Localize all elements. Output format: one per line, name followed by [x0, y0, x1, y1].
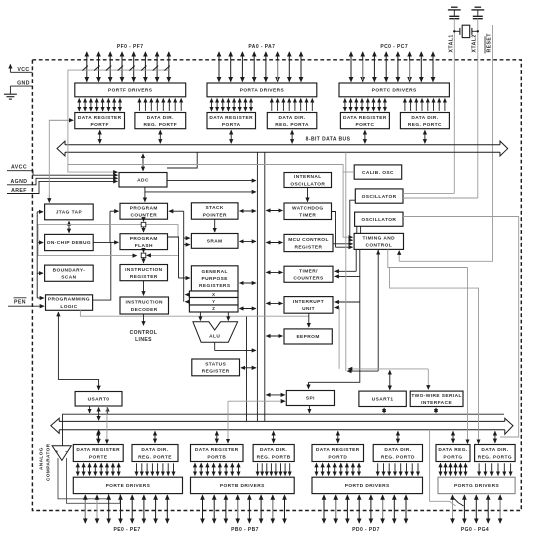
svg-text:PORTE DRIVERS: PORTE DRIVERS	[106, 483, 151, 489]
wire interrupt to serial units	[335, 307, 339, 309]
PROGRAM FLASH	[120, 234, 168, 250]
wire XTAL1 to oscillator	[403, 192, 454, 194]
XTAL2 capacitor+ground	[475, 6, 482, 8]
PORTE register-driver arrows	[78, 463, 174, 475]
wire ADC upper-right to bus	[167, 152, 197, 168]
svg-text:LOGIC: LOGIC	[60, 304, 77, 310]
analog comparator	[52, 446, 71, 461]
svg-text:OSCILLATOR: OSCILLATOR	[290, 181, 325, 187]
STATUS REGISTER	[192, 359, 240, 376]
ADC analog input taps on PORTF pins	[68, 66, 170, 71]
svg-text:VCC: VCC	[17, 67, 29, 73]
programming serial link	[246, 316, 248, 421]
data dir. register PORTF	[135, 113, 186, 129]
svg-text:PORTB DRIVERS: PORTB DRIVERS	[220, 483, 265, 489]
wire SP to SRAM	[214, 219, 216, 232]
wire Z to bus	[240, 308, 256, 310]
BOUNDARY-SCAN	[45, 265, 94, 281]
wire around OCD (flash address)	[38, 225, 142, 256]
PORTB register-bus arrows	[217, 431, 274, 442]
svg-text:SCAN: SCAN	[61, 275, 76, 281]
svg-text:ON-CHIP DEBUG: ON-CHIP DEBUG	[47, 240, 91, 246]
wire gray long vertical	[345, 152, 347, 371]
USART1 top arrow	[389, 371, 391, 390]
svg-text:TIMER/: TIMER/	[299, 268, 318, 274]
PB pin lines	[203, 495, 285, 523]
node PC-flash	[143, 219, 145, 221]
svg-text:PORTA DRIVERS: PORTA DRIVERS	[240, 88, 285, 94]
svg-text:PORTD: PORTD	[328, 454, 347, 460]
register X	[189, 291, 238, 298]
svg-text:REGISTER: REGISTER	[130, 274, 158, 280]
svg-text:COUNTER: COUNTER	[130, 213, 157, 219]
data dir. register PORTA	[267, 113, 317, 129]
PA0-PA7 pin lines	[219, 52, 301, 82]
GENERAL PURPOSE REGISTERS	[191, 266, 238, 291]
comparator input wires	[58, 458, 108, 499]
PROGRAM COUNTER	[120, 203, 168, 219]
svg-text:PORTC: PORTC	[355, 122, 374, 128]
ground symbol	[4, 93, 17, 95]
wire GPR to ALU	[199, 312, 201, 320]
svg-text:REGISTER: REGISTER	[295, 244, 323, 250]
wire ADC column to timing and control	[68, 165, 353, 238]
SPI	[286, 391, 334, 406]
PC0-PC7 pin lines	[351, 52, 433, 82]
INTERRUPT UNIT	[284, 297, 333, 314]
data dir. register PORTE	[132, 445, 178, 462]
svg-text:DATA DIR.: DATA DIR.	[141, 447, 168, 453]
svg-text:REGISTER: REGISTER	[202, 369, 230, 375]
8-bit data bus (bottom)	[59, 421, 505, 429]
STACK POINTER	[191, 203, 238, 219]
wire clock to SPI	[308, 382, 310, 388]
GND pin	[10, 85, 32, 87]
wire int osc to watchdog	[307, 188, 309, 202]
data dir. register PORTC	[400, 113, 449, 129]
wire OCD rail down	[93, 242, 111, 300]
svg-text:PORTE: PORTE	[89, 454, 108, 460]
svg-text:PORTB: PORTB	[207, 454, 226, 460]
USART1	[359, 391, 406, 406]
wire T&C to timer/counters	[355, 249, 357, 271]
svg-text:PD0 - PD7: PD0 - PD7	[352, 527, 380, 533]
svg-text:PORTD DRIVERS: PORTD DRIVERS	[345, 483, 390, 489]
svg-text:DATA REGISTER: DATA REGISTER	[343, 115, 387, 121]
svg-text:OSCILLATOR: OSCILLATOR	[361, 217, 396, 223]
svg-text:DATA REGISTER: DATA REGISTER	[78, 115, 122, 121]
wire calib osc stub	[343, 171, 354, 173]
CALIB. OSC	[354, 165, 402, 179]
PD pin lines	[324, 495, 406, 523]
svg-text:JTAG TAP: JTAG TAP	[56, 210, 83, 216]
PORTB register-driver arrows	[195, 463, 290, 475]
ADC	[119, 173, 167, 188]
svg-text:COMPARATOR: COMPARATOR	[46, 443, 51, 481]
wire PORTF register to JTAG	[49, 120, 73, 200]
svg-text:COUNTERS: COUNTERS	[293, 276, 324, 282]
TWO-WIRE SERIAL INTERFACE	[410, 391, 463, 406]
INSTRUCTION DECODER	[120, 297, 169, 314]
TIMER/COUNTERS	[284, 266, 333, 282]
svg-text:UNIT: UNIT	[302, 306, 315, 312]
SPI-bus arrow left	[266, 394, 284, 396]
svg-text:SPI: SPI	[306, 396, 315, 402]
control lines arrow	[143, 314, 145, 325]
svg-text:PF0 - PF7: PF0 - PF7	[117, 44, 144, 50]
PORTG register-driver arrows	[441, 463, 511, 475]
svg-text:TIMER: TIMER	[299, 213, 316, 219]
data register PORTB	[191, 445, 244, 462]
svg-text:CALIB. OSC: CALIB. OSC	[362, 170, 394, 176]
PORTB drivers	[191, 477, 295, 493]
svg-text:INSTRUCTION: INSTRUCTION	[125, 300, 163, 306]
wire bus to ADC	[142, 154, 144, 171]
svg-text:REG. PORTD: REG. PORTD	[381, 454, 415, 460]
wire OCD to program counter/flash	[93, 241, 110, 243]
svg-text:CONTROL: CONTROL	[365, 243, 392, 249]
wire T&C down-left	[377, 249, 379, 371]
wire ADC to bus right	[167, 180, 256, 182]
wire MCU ctrl to T&C	[333, 243, 352, 245]
register Z	[189, 305, 238, 312]
svg-text:INTERFACE: INTERFACE	[421, 400, 452, 406]
svg-text:PC0 - PC7: PC0 - PC7	[380, 44, 408, 50]
svg-text:REG. PORTB: REG. PORTB	[257, 454, 291, 460]
wire PORTF analog to ADC	[68, 70, 117, 172]
wire T&C gray down	[388, 249, 468, 267]
svg-text:REGISTERS: REGISTERS	[199, 283, 231, 289]
svg-text:DATA REGISTER: DATA REGISTER	[76, 447, 120, 453]
svg-text:DECODER: DECODER	[131, 307, 158, 313]
svg-text:X: X	[212, 292, 215, 297]
PORTC drivers	[339, 83, 449, 97]
wire programming logic to EEPROM	[80, 310, 308, 316]
PORTG gray wire	[430, 430, 456, 506]
svg-text:PORTA: PORTA	[222, 122, 241, 128]
svg-text:DATA REGISTER: DATA REGISTER	[316, 447, 360, 453]
ALU	[193, 322, 238, 342]
8-bit data bus (top)	[65, 145, 500, 153]
svg-text:PORTF DRIVERS: PORTF DRIVERS	[108, 88, 153, 94]
wire around flash right	[145, 225, 179, 237]
register Y	[189, 298, 238, 306]
PORTF register-bus arrows	[100, 130, 161, 143]
PORTC register-bus arrows	[365, 130, 425, 143]
PORTG crossover	[453, 497, 464, 506]
XTAL2 net	[477, 18, 479, 198]
svg-text:DATA REGISTER: DATA REGISTER	[209, 115, 253, 121]
ON-CHIP DEBUG	[45, 234, 94, 250]
wire ADC to program counter / bus	[145, 187, 256, 192]
svg-text:Y: Y	[212, 299, 215, 304]
PORTD drivers	[312, 477, 423, 493]
svg-text:PROGRAM: PROGRAM	[130, 205, 158, 211]
chip boundary (dashed)	[32, 60, 521, 511]
wire programming logic to USART0	[57, 312, 59, 379]
TWI bottom arrow	[435, 408, 437, 413]
svg-text:POINTER: POINTER	[203, 212, 227, 218]
vertical bus link 2	[264, 152, 266, 421]
svg-text:TIMING AND: TIMING AND	[363, 236, 396, 242]
EEPROM	[284, 329, 332, 344]
USART0	[75, 392, 122, 407]
wire osc2 to TOSC pins	[403, 217, 519, 438]
wire status register to bus	[241, 367, 256, 369]
XTAL1 net	[453, 18, 455, 193]
svg-text:AGND: AGND	[11, 179, 28, 185]
PORTE register-bus arrows	[98, 431, 155, 442]
TIMING AND CONTROL	[354, 233, 403, 249]
svg-text:PROGRAMMING: PROGRAMMING	[48, 297, 90, 303]
wire ALU to bus	[214, 342, 216, 350]
svg-text:ALU: ALU	[209, 334, 220, 340]
JTAG-OCD link	[68, 221, 70, 232]
svg-text:ADC: ADC	[137, 178, 149, 184]
svg-text:DATA DIR.: DATA DIR.	[260, 447, 287, 453]
svg-text:−: −	[65, 449, 69, 455]
PORTC driver-register arrows	[345, 99, 445, 111]
PORTA driver-register arrows	[212, 99, 313, 111]
svg-text:PURPOSE: PURPOSE	[201, 276, 228, 282]
MCU CONTROL REGISTER	[284, 234, 333, 251]
svg-text:AVCC: AVCC	[11, 165, 27, 171]
wire bottom rail	[63, 414, 505, 446]
svg-text:GENERAL: GENERAL	[201, 269, 227, 275]
svg-text:OSCILLATOR: OSCILLATOR	[362, 194, 397, 200]
wire watchdog to T&C	[332, 212, 336, 248]
svg-text:DATA REGISTER: DATA REGISTER	[195, 447, 239, 453]
svg-text:PROGRAM: PROGRAM	[130, 236, 158, 242]
wire XTAL2 to oscillator	[403, 197, 478, 199]
USART0-bus arrows	[89, 406, 91, 413]
PORTE drivers	[73, 477, 182, 493]
svg-text:DATA DIR.: DATA DIR.	[411, 115, 438, 121]
svg-text:REG. PORTA: REG. PORTA	[275, 122, 309, 128]
svg-text:REG. PORTE: REG. PORTE	[138, 454, 172, 460]
data register PORTF	[75, 113, 125, 129]
data dir. register PORTD	[373, 445, 422, 462]
PG pin lines	[453, 495, 501, 523]
PORTD register-bus arrows	[338, 431, 398, 442]
node flash-IR	[143, 250, 145, 253]
svg-text:PG0 - PG4: PG0 - PG4	[461, 527, 489, 533]
data register PORTE	[73, 445, 123, 462]
SRAM	[191, 234, 238, 249]
address rail to PC/SRAM	[183, 211, 185, 302]
svg-text:INSTRUCTION: INSTRUCTION	[125, 267, 163, 273]
wire osc2 down to T&C	[356, 226, 358, 233]
svg-text:PB0 - PB7: PB0 - PB7	[231, 527, 259, 533]
vertical bus link 1	[256, 152, 258, 421]
svg-text:INTERRUPT: INTERRUPT	[293, 299, 324, 305]
data dir. register PORTB	[253, 445, 294, 462]
svg-text:USART0: USART0	[88, 397, 110, 403]
SPI-bus arrow bottom	[308, 406, 310, 413]
data dir. register PORTG	[475, 445, 515, 462]
svg-text:INTERNAL: INTERNAL	[294, 174, 322, 180]
svg-text:PORTF: PORTF	[91, 122, 109, 128]
peripheral bus arrows	[266, 210, 282, 212]
left control rail	[36, 212, 38, 298]
wire T&C to portG dir reg	[390, 268, 479, 438]
svg-text:RESET: RESET	[486, 33, 492, 53]
wire IR to decoder	[143, 281, 145, 296]
bus arrows middle column	[240, 210, 256, 212]
data register PORTD	[312, 445, 364, 462]
crystal Y1	[462, 25, 470, 37]
PORTF driver-register arrows	[79, 99, 181, 111]
svg-text:PEN: PEN	[14, 299, 26, 305]
INTERNAL OSCILLATOR	[284, 173, 332, 188]
svg-text:ANALOG: ANALOG	[39, 447, 44, 470]
svg-text:WATCHDOG: WATCHDOG	[292, 205, 324, 211]
data register PORTA	[207, 113, 256, 129]
svg-text:DATA DIR.: DATA DIR.	[147, 115, 174, 121]
svg-text:PA0 - PA7: PA0 - PA7	[248, 44, 275, 50]
svg-text:DATA REG.: DATA REG.	[438, 447, 467, 453]
data register PORTC	[340, 113, 389, 129]
svg-text:BOUNDARY-: BOUNDARY-	[53, 267, 86, 273]
svg-text:DATA DIR.: DATA DIR.	[279, 115, 306, 121]
PORTD register-driver arrows	[317, 463, 419, 475]
svg-text:PORTG: PORTG	[443, 454, 462, 460]
XTAL1 capacitor+ground	[451, 6, 458, 8]
svg-text:FLASH: FLASH	[135, 243, 153, 249]
svg-text:REG. PORTG: REG. PORTG	[478, 454, 512, 460]
PE pin lines	[85, 495, 167, 523]
USART0 to PORTE register	[98, 430, 100, 443]
svg-text:LINES: LINES	[135, 337, 152, 343]
svg-text:DATA DIR.: DATA DIR.	[481, 447, 508, 453]
OSCILLATOR 2	[355, 212, 403, 226]
data register PORTG	[436, 445, 470, 462]
svg-text:CONTROL: CONTROL	[130, 330, 158, 336]
svg-text:8-BIT DATA BUS: 8-BIT DATA BUS	[306, 137, 351, 143]
RESET net	[399, 25, 492, 261]
svg-text:+: +	[55, 450, 59, 456]
svg-text:USART1: USART1	[372, 397, 394, 403]
svg-text:GND: GND	[17, 80, 30, 86]
USART1 bottom arrow	[383, 408, 385, 413]
svg-text:XTAL1: XTAL1	[448, 34, 454, 52]
PF0-PF7 pin lines	[87, 52, 169, 82]
svg-text:STACK: STACK	[206, 205, 224, 211]
svg-text:REG. PORTF: REG. PORTF	[144, 122, 178, 128]
OSCILLATOR 1	[355, 189, 403, 203]
svg-text:PE0 - PE7: PE0 - PE7	[113, 527, 140, 533]
PORTA drivers	[207, 83, 317, 97]
svg-text:DATA DIR.: DATA DIR.	[384, 447, 411, 453]
SPI to PORTB register	[227, 401, 229, 437]
PROGRAMMING LOGIC	[46, 295, 93, 311]
WATCHDOG TIMER	[284, 203, 332, 220]
PORTG register-bus arrows	[453, 431, 495, 442]
PORTA register-bus arrows	[231, 130, 292, 143]
wire flash to GPR	[168, 237, 179, 278]
svg-text:XTAL2: XTAL2	[471, 34, 477, 52]
svg-text:STATUS: STATUS	[205, 362, 226, 368]
JTAG TAP	[45, 204, 94, 220]
PORTF drivers	[75, 83, 186, 97]
svg-text:MCU CONTROL: MCU CONTROL	[288, 237, 329, 243]
VCC pin	[9, 65, 11, 73]
svg-text:SRAM: SRAM	[207, 239, 223, 245]
svg-text:EEPROM: EEPROM	[296, 334, 319, 340]
svg-text:PORTG DRIVERS: PORTG DRIVERS	[454, 483, 500, 489]
INSTRUCTION REGISTER	[120, 265, 168, 281]
svg-text:REG. PORTC: REG. PORTC	[408, 122, 442, 128]
svg-text:TWO-WIRE SERIAL: TWO-WIRE SERIAL	[411, 393, 462, 399]
PORTG drivers	[438, 477, 515, 493]
svg-text:PORTC DRIVERS: PORTC DRIVERS	[372, 88, 417, 94]
wire osc1 to T&C	[350, 200, 356, 240]
svg-text:Z: Z	[212, 306, 215, 311]
